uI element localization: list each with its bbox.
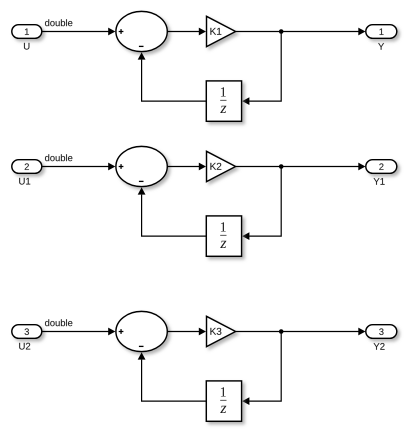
output port 3 (Y2)	[366, 325, 397, 339]
feedback wire Unit Delay3 to Sum3 minus input	[138, 352, 207, 401]
label Y2	[374, 343, 385, 350]
gain block K1	[207, 16, 236, 46]
feedback wire Unit Delay2 to Sum2 minus input	[138, 187, 207, 236]
junction node row 2	[279, 164, 284, 169]
sum block Sum1	[116, 11, 167, 51]
output port 1 (Y)	[366, 25, 397, 39]
wire U1 to Sum2	[42, 163, 116, 171]
input port 2 (U1)	[12, 160, 42, 174]
wire K3 to Y2	[236, 328, 366, 336]
input port 1 (U)	[12, 25, 42, 39]
feedback wire branch to Unit Delay2	[242, 167, 281, 241]
feedback wire Unit Delay1 to Sum1 minus input	[138, 52, 207, 101]
signal label double	[45, 19, 72, 26]
sum block Sum3	[116, 311, 167, 351]
gain block K3	[207, 316, 236, 346]
wire U to Sum1	[42, 28, 116, 36]
output port 2 (Y1)	[366, 160, 397, 174]
label Y	[378, 43, 384, 50]
unit delay block 1/z (Unit Delay3)	[206, 381, 241, 421]
signal label double	[45, 154, 72, 161]
unit delay block 1/z (Unit Delay2)	[206, 216, 241, 256]
feedback wire branch to Unit Delay3	[242, 332, 281, 406]
sum block Sum2	[116, 146, 167, 186]
unit delay block 1/z (Unit Delay1)	[206, 81, 241, 121]
wire U2 to Sum3	[42, 328, 116, 336]
wire K1 to Y	[236, 28, 366, 36]
label U2	[19, 343, 30, 350]
feedback wire branch to Unit Delay1	[242, 32, 281, 106]
input port 3 (U2)	[12, 325, 42, 339]
label Y1	[374, 178, 385, 185]
wire K2 to Y1	[236, 163, 366, 171]
wire Sum2 to Gain K2	[167, 163, 206, 171]
label U	[24, 43, 29, 50]
junction node row 1	[279, 29, 284, 34]
wire Sum1 to Gain K1	[167, 28, 206, 36]
signal label double	[45, 319, 72, 326]
wire Sum3 to Gain K3	[167, 328, 206, 336]
gain block K2	[207, 151, 236, 181]
label U1	[19, 178, 30, 185]
junction node row 3	[279, 329, 284, 334]
